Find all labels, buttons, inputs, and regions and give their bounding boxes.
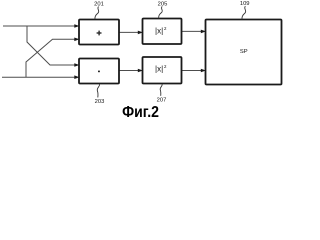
svg-text:Фиг.2: Фиг.2 [122,103,159,120]
svg-text:201: 201 [94,1,104,7]
svg-text:203: 203 [95,99,105,105]
svg-text:SP: SP [240,49,248,55]
svg-text:205: 205 [158,1,168,7]
svg-text:109: 109 [240,1,250,7]
